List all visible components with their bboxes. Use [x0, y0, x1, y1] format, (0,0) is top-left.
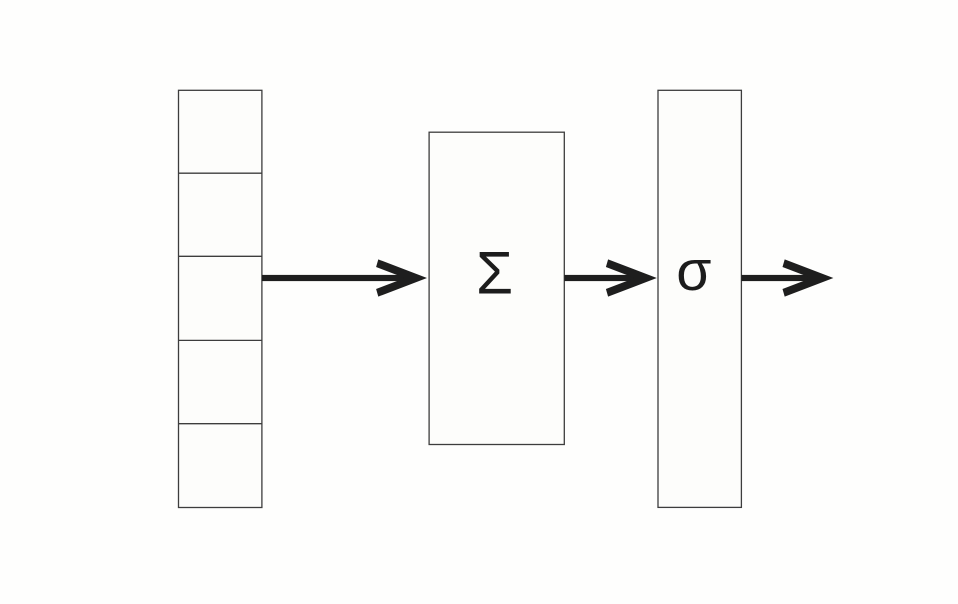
output arrow — [741, 259, 833, 296]
arrow: summation block to activation block — [564, 259, 656, 296]
input vector column (5 stacked cells) — [179, 90, 262, 507]
activation block — [658, 90, 741, 507]
svg-text:σ: σ — [676, 239, 711, 303]
summation block — [429, 132, 564, 444]
arrow: input column to summation block — [262, 259, 427, 296]
svg-text:Σ: Σ — [476, 239, 513, 306]
